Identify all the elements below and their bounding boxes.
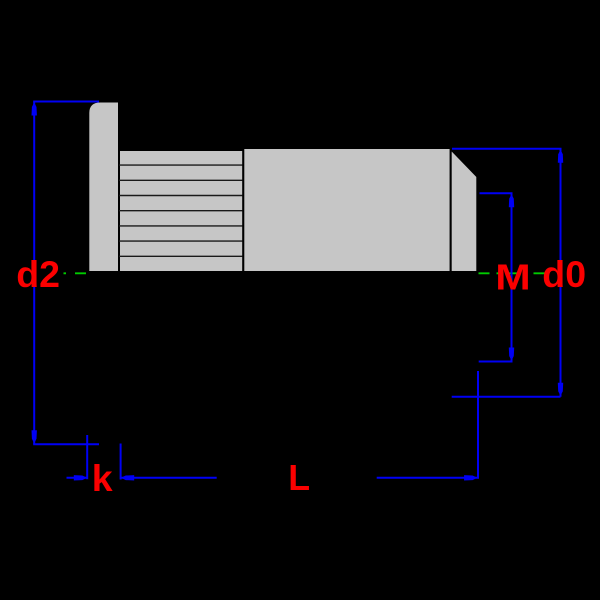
dimension d0 (452, 149, 564, 397)
k extension line right (120, 444, 122, 480)
centerline right segment (479, 272, 546, 274)
label L (288, 458, 310, 498)
chamfered tip section (451, 149, 478, 272)
L dimension line right part (377, 475, 478, 480)
svg-text:d2: d2 (16, 253, 60, 295)
L dimension line left part (shared k right arrow) (121, 475, 217, 480)
label k (92, 457, 113, 499)
flange head (88, 102, 119, 273)
label M (495, 256, 531, 297)
dimension d2 vertical line (32, 102, 100, 445)
dimension M (479, 193, 515, 361)
smooth shank section (243, 148, 450, 272)
k dimension arrows (67, 475, 88, 480)
svg-text:k: k (92, 457, 113, 499)
knurled body section (119, 150, 243, 272)
svg-text:M: M (495, 256, 531, 297)
label d0 (542, 253, 586, 295)
svg-text:L: L (288, 458, 310, 498)
k extension line left (86, 435, 88, 479)
label d2 (16, 253, 60, 295)
svg-text:d0: d0 (542, 253, 586, 295)
L extension line right (body tip) (477, 371, 479, 479)
centerline left segment (64, 272, 89, 274)
